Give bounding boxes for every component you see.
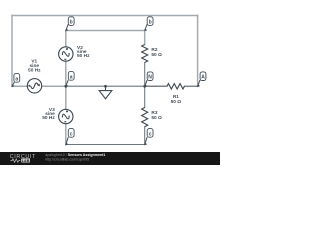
node flag c (left) <box>65 129 74 146</box>
svg-text:50 Hz: 50 Hz <box>28 68 41 74</box>
svg-text:50 Hz: 50 Hz <box>42 115 55 121</box>
wire R3 top lead <box>144 86 146 107</box>
svg-text:50 Ω: 50 Ω <box>151 115 162 121</box>
wire V2 top lead <box>65 31 67 47</box>
svg-text:c: c <box>149 131 152 137</box>
resistor R2 <box>142 45 148 63</box>
node junction dot N <box>143 85 146 88</box>
svg-text:b: b <box>70 20 73 26</box>
svg-text:A: A <box>201 75 205 81</box>
wire R2 top lead <box>144 31 146 45</box>
node junction dot a <box>64 85 67 88</box>
wire right vertical <box>197 16 199 87</box>
ground <box>99 86 112 99</box>
svg-text:a: a <box>15 76 18 82</box>
wire top <box>12 15 198 17</box>
wire V3 top lead <box>65 86 67 109</box>
wire left vertical <box>11 16 13 87</box>
R1 value label <box>171 94 182 105</box>
R3 value label <box>151 110 162 121</box>
V3 value label <box>42 107 55 121</box>
V2 value label <box>77 45 90 59</box>
wire ground to node N <box>106 85 145 87</box>
svg-text:c: c <box>70 131 73 137</box>
svg-text:50 Ω: 50 Ω <box>171 99 182 105</box>
voltage source V1 <box>27 79 41 93</box>
wire R3 bottom lead <box>144 127 146 145</box>
node flag a (left corner) <box>11 74 19 88</box>
voltage source V2 <box>59 47 73 61</box>
wire V1 right lead to node a <box>42 85 66 87</box>
svg-text:R3: R3 <box>151 110 157 116</box>
svg-text:ayaloghm10 / Sensors Assignmen: ayaloghm10 / Sensors Assignment1 <box>45 153 105 157</box>
svg-text:50 Hz: 50 Hz <box>77 53 90 59</box>
footer bar <box>0 152 220 165</box>
node flag c (right) <box>144 129 153 146</box>
wire node a to ground <box>66 85 106 87</box>
resistor R3 <box>142 108 148 127</box>
R2 value label <box>151 47 162 58</box>
wire R2 bottom lead <box>144 63 146 87</box>
node flag a (center junction) <box>65 72 74 88</box>
wire net c bottom horizontal <box>66 144 145 146</box>
footer project text <box>45 153 105 161</box>
svg-text:b: b <box>149 20 152 26</box>
node flag b (left) <box>65 17 74 32</box>
svg-text:a: a <box>70 74 73 80</box>
wire R1 right lead <box>184 85 197 87</box>
wire V2 bottom lead <box>65 61 67 86</box>
node junction dot ground <box>104 85 107 88</box>
node flag N <box>144 72 153 87</box>
V1 value label <box>28 59 41 74</box>
wire node N to R1 <box>145 85 167 87</box>
svg-text:LAB: LAB <box>22 159 30 163</box>
voltage source V3 <box>59 109 73 123</box>
svg-text:50 Ω: 50 Ω <box>151 52 162 58</box>
wire V1 left lead <box>12 85 27 87</box>
wire net b horizontal <box>66 30 145 32</box>
svg-text:N: N <box>148 75 152 81</box>
footer CircuitLab logo <box>10 154 36 163</box>
node flag A <box>197 72 206 87</box>
resistor R1 <box>167 84 184 89</box>
svg-text:http://circuitlab.com/cqert95: http://circuitlab.com/cqert95 <box>45 157 89 161</box>
wire V3 bottom lead <box>65 124 67 145</box>
node flag b (right) <box>144 17 153 32</box>
